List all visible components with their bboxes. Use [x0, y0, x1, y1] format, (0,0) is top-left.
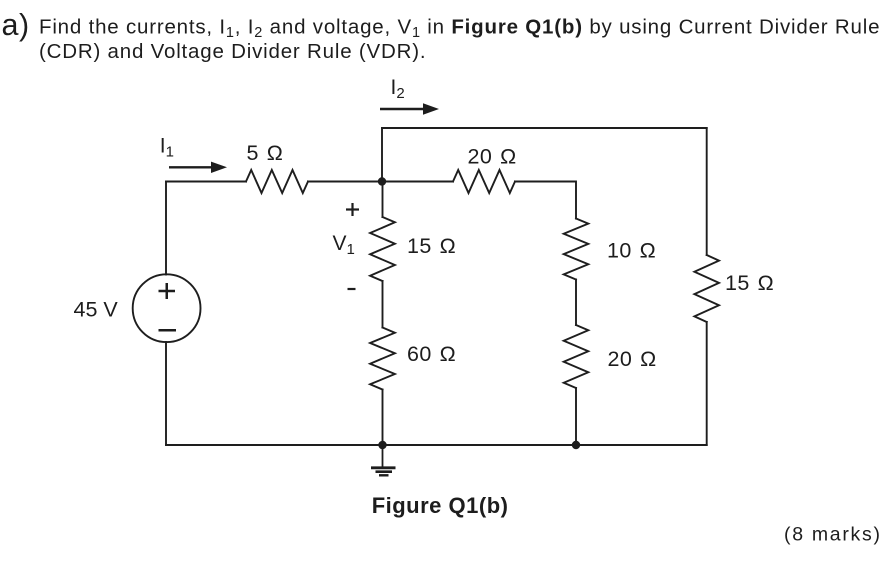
resistor R4 60ohm [370, 328, 395, 390]
resistor R1 5ohm [246, 170, 308, 193]
wire top rail 1 left segment [166, 181, 246, 183]
svg-text:15 Ω: 15 Ω [725, 271, 774, 295]
svg-text:(8 marks): (8 marks) [784, 524, 882, 546]
resistor R3 15ohm middle [370, 217, 395, 281]
wire left rail top (source to top rail) [165, 182, 167, 275]
wire 60ohm to bottom rail [382, 390, 384, 446]
svg-text:Find the currents, I1, I2 and: Find the currents, I1, I2 and voltage, V… [39, 16, 880, 42]
resistor R5 10ohm [564, 219, 589, 280]
wire bottom rail [166, 444, 707, 446]
wire node A down to 15ohm [382, 182, 384, 218]
node A junction dot [378, 177, 386, 185]
wire right rail upper [706, 128, 708, 255]
current arrow I2 [380, 103, 439, 114]
svg-text:Figure Q1(b): Figure Q1(b) [372, 493, 509, 518]
svg-text:10 Ω: 10 Ω [607, 239, 656, 263]
V1 polarity plus [346, 208, 359, 210]
wire 20ohm lower to bottom rail [575, 388, 577, 445]
wire 20ohm to branch corner [515, 182, 576, 219]
wire top rail 2 [382, 127, 707, 129]
resistor R2 20ohm top [453, 170, 515, 193]
svg-text:5 Ω: 5 Ω [247, 141, 284, 165]
current arrow I1 [169, 162, 227, 173]
wire right rail lower [706, 322, 708, 445]
wire node A riser [381, 128, 383, 182]
svg-text:15 Ω: 15 Ω [407, 234, 456, 258]
svg-text:20 Ω: 20 Ω [608, 347, 657, 371]
voltage source minus sign [159, 329, 177, 332]
resistor R6 20ohm lower [564, 325, 589, 388]
resistor R7 15ohm right [694, 255, 719, 322]
svg-text:20 Ω: 20 Ω [468, 145, 517, 169]
svg-text:(CDR) and Voltage Divider Rule: (CDR) and Voltage Divider Rule (VDR). [39, 40, 426, 63]
svg-text:45 V: 45 V [74, 298, 119, 322]
wire between 15ohm and 60ohm [382, 281, 384, 328]
node B junction dot [572, 441, 580, 449]
wire between 10ohm and 20ohm [575, 280, 577, 326]
wire top rail 1 right segment [308, 181, 382, 183]
wire left rail bottom (source to bottom rail) [165, 342, 167, 445]
wire node A to 20ohm [382, 181, 453, 183]
svg-text:60 Ω: 60 Ω [407, 342, 456, 366]
svg-text:a): a) [2, 8, 30, 42]
voltage source V 45V circle [133, 274, 201, 342]
ground [371, 445, 396, 475]
V1 polarity minus [348, 288, 356, 290]
ground node junction dot [378, 441, 386, 449]
voltage source plus sign [159, 290, 176, 293]
